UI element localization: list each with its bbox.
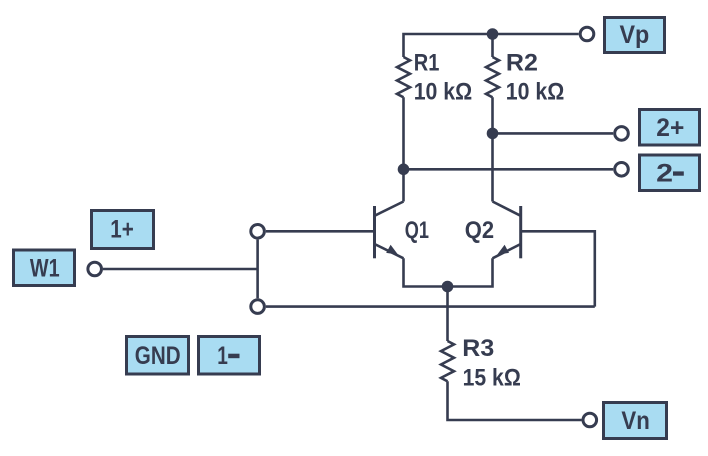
terminal W1 [88, 262, 102, 276]
wire Q1 emitter to source node [404, 258, 448, 286]
wire R3 to Vn [448, 381, 582, 420]
wire R2 top stub [491, 34, 494, 57]
label box W1 [14, 250, 75, 286]
label box GND [127, 337, 189, 375]
node top rail junction [487, 28, 499, 40]
wire 2+ [493, 132, 614, 135]
wire top rail to Vp [404, 34, 579, 57]
svg-text:2: 2 [656, 160, 673, 188]
terminal Vp [580, 27, 594, 41]
transistor Q1 [375, 202, 404, 259]
wire 2- [404, 168, 614, 171]
resistor R1 [397, 57, 410, 97]
terminal 2+ [615, 127, 629, 141]
label 2- [656, 160, 684, 188]
wire 1- rail [266, 305, 595, 308]
svg-text:Q1: Q1 [405, 217, 429, 244]
resistor R2 [486, 57, 499, 97]
wire R2 to Q2 collector [491, 97, 494, 201]
wire Q2 emitter to source node [448, 258, 493, 286]
svg-text:R1: R1 [414, 50, 440, 77]
label box 2+ [640, 110, 700, 146]
svg-text:Vn: Vn [621, 407, 649, 435]
wire W1 to input node [103, 268, 258, 271]
wire source node to R3 [446, 287, 449, 342]
svg-text:10 kΩ: 10 kΩ [414, 78, 473, 105]
wire R1 to Q1 collector [402, 97, 405, 201]
svg-text:Q2: Q2 [465, 217, 494, 244]
terminal 2- [615, 163, 629, 177]
label box Vn [604, 403, 667, 439]
transistor Q2 [493, 202, 521, 259]
svg-text:R2: R2 [506, 50, 538, 77]
svg-text:1+: 1+ [110, 216, 134, 244]
svg-text:R3: R3 [462, 335, 494, 362]
terminal Vn [583, 413, 597, 427]
label 1- [217, 342, 239, 370]
terminal 1+ [251, 225, 265, 239]
node 2- junction [398, 164, 410, 176]
label box Vp [605, 18, 665, 53]
svg-text:W1: W1 [30, 254, 60, 282]
wire Q2 base feedback right side [521, 231, 595, 306]
wire input vertical 1+ to 1- [256, 240, 259, 299]
label box 2- [640, 155, 700, 191]
svg-text:15 kΩ: 15 kΩ [463, 364, 521, 391]
terminal 1- [251, 300, 265, 314]
svg-text:Vp: Vp [620, 21, 650, 49]
label box 1- [199, 337, 260, 375]
svg-text:10 kΩ: 10 kΩ [506, 78, 565, 105]
node emitter junction [442, 281, 454, 293]
wire 1+ to Q1 base [266, 230, 375, 233]
label box 1+ [92, 211, 154, 249]
svg-text:1: 1 [217, 342, 228, 370]
node 2+ junction [487, 128, 499, 140]
svg-text:GND: GND [135, 342, 181, 370]
resistor R3 [441, 341, 454, 381]
svg-text:2+: 2+ [656, 114, 684, 142]
